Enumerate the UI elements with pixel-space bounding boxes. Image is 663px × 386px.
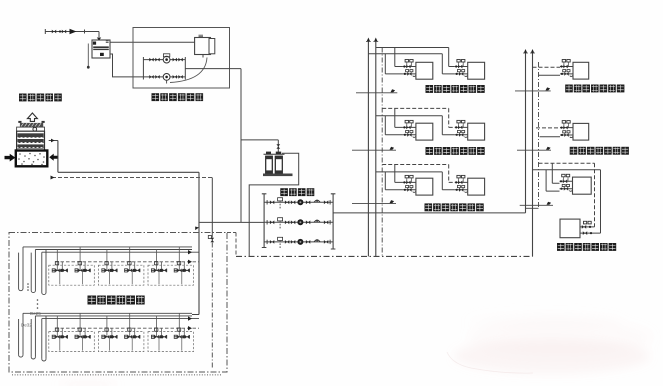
svg-text:De32: De32 xyxy=(21,323,32,328)
svg-text:De25: De25 xyxy=(30,311,41,316)
